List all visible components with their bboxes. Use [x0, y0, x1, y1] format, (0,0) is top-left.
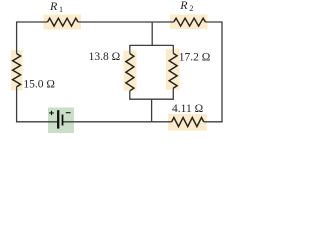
wire top left (corner to R1)	[17, 21, 48, 23]
resistor R2 zigzag	[174, 18, 206, 26]
svg-text:R2: R2	[179, 0, 193, 13]
wire top right (R2 to corner)	[205, 21, 222, 23]
wire bottom right (4.11 to corner)	[204, 121, 223, 123]
resistor 4.11 highlight	[168, 114, 207, 131]
resistor R2 highlight	[170, 15, 208, 30]
resistor 13.8 highlight	[124, 51, 137, 91]
svg-text:4.11 Ω: 4.11 Ω	[172, 103, 203, 115]
wire 13.8 top lead	[129, 45, 131, 54]
wire 17.2 top lead	[172, 45, 174, 53]
wire 13.8 bottom lead	[129, 91, 131, 100]
resistor 17.2 zigzag	[169, 53, 177, 88]
wire middle branch bottom vertical	[151, 99, 153, 122]
resistor 17.2 highlight	[166, 49, 180, 90]
wire parallel bottom bar	[130, 98, 174, 100]
wire left lower	[16, 87, 18, 123]
wire top middle (R1 to R2)	[78, 21, 174, 23]
battery long plate (+)	[57, 110, 59, 128]
battery highlight	[48, 108, 74, 134]
svg-text:13.8 Ω: 13.8 Ω	[89, 51, 121, 63]
resistor 4.11 zigzag	[172, 118, 204, 127]
battery plus sign	[49, 111, 54, 115]
wire bottom left (corner to battery)	[16, 121, 58, 123]
svg-text:R1: R1	[49, 0, 63, 14]
resistor 13.8 zigzag	[126, 54, 134, 91]
battery short plate (-)	[62, 115, 64, 126]
wire right side	[221, 21, 223, 122]
wire parallel top bar	[130, 44, 174, 46]
battery minus sign	[66, 112, 71, 114]
svg-text:15.0 Ω: 15.0 Ω	[23, 78, 55, 90]
wire left upper	[16, 21, 18, 53]
wire middle branch top vertical	[151, 22, 153, 45]
resistor R1 highlight	[44, 15, 82, 30]
wire 17.2 bottom lead	[172, 88, 174, 100]
resistor 15.0 zigzag	[13, 54, 21, 87]
wire bottom middle (battery to 4.11)	[63, 121, 172, 123]
svg-text:17.2 Ω: 17.2 Ω	[179, 52, 211, 64]
resistor 15.0 highlight	[11, 50, 23, 90]
resistor R1 zigzag	[48, 18, 79, 26]
